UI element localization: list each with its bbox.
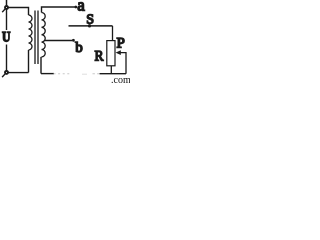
wire: left rail upper: [6, 9, 8, 30]
node b (dot): [72, 39, 75, 42]
arrow up from top terminal: [6, 0, 8, 5]
transformer core line left: [34, 11, 36, 65]
wire: bottom rail left solid segment: [41, 73, 54, 75]
switch S wire: [69, 25, 113, 27]
svg-text:R: R: [95, 49, 104, 65]
wire: primary top: [8, 8, 28, 16]
slider P arrowhead: [116, 50, 121, 55]
source terminal bottom (circle): [5, 71, 8, 74]
wire: secondary bottom lead: [40, 57, 42, 74]
rheostat R (box): [107, 41, 115, 66]
transformer core line right: [37, 11, 39, 65]
wire: bottom rail faint dotted segment 2: [93, 73, 100, 75]
wire: bottom rail right solid segment: [100, 73, 127, 75]
source terminal top (circle): [5, 6, 8, 9]
wire: switch to rheostat top: [112, 26, 114, 41]
wire: rheostat bottom lead: [110, 66, 112, 74]
transformer primary winding: [29, 15, 33, 50]
switch pivot dot: [88, 24, 91, 27]
svg-text:U: U: [2, 30, 11, 46]
wire: bottom rail faint smudge: [82, 73, 87, 75]
svg-text:a: a: [77, 0, 85, 14]
wire: secondary tap to b: [45, 40, 72, 42]
slider P wire: [120, 53, 126, 74]
wire: left rail lower: [6, 45, 8, 71]
wire: primary bottom: [8, 72, 28, 74]
wire: secondary top lead to a: [42, 7, 75, 13]
arrow tick bottom terminal (down-left): [2, 74, 5, 77]
svg-text:.com: .com: [111, 75, 130, 84]
node a (dot): [74, 6, 77, 9]
svg-text:P: P: [117, 35, 125, 51]
svg-text:b: b: [75, 40, 83, 56]
arrow tick top terminal (down-left): [2, 9, 5, 12]
wire: bottom rail faded dotted segment: [54, 73, 71, 75]
wire: primary bottom lead: [28, 50, 30, 73]
transformer secondary winding: [42, 13, 46, 57]
